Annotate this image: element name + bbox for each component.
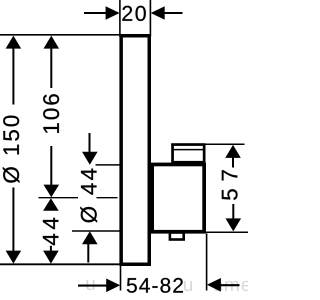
dimension 20: left arrow — [106, 6, 120, 20]
dimension 54-82: right arrow — [207, 278, 221, 292]
dimension D44: lower stem — [87, 244, 89, 263]
dimension 20: label — [122, 6, 145, 21]
dimension 57: label — [222, 170, 238, 200]
dimension D150: label — [3, 116, 20, 183]
dimension 54-82: left tail — [78, 285, 107, 287]
dimension D150: top arrow — [6, 36, 22, 49]
dimension 57: lower stem — [232, 204, 234, 220]
watermark letter — [87, 280, 95, 290]
dimension D44: bottom edge line — [72, 230, 121, 232]
dimension 57: top arrow — [225, 145, 241, 158]
plate top extension line — [0, 34, 121, 36]
dimension 54-82: left extension line — [120, 265, 122, 291]
dimension 57: top extension line — [204, 143, 245, 145]
dimension 54-82: right extension line — [206, 233, 208, 290]
dimension 44: top arrow (bowtie) — [43, 198, 59, 211]
dimension 106: top arrow — [44, 36, 60, 49]
dimension D44: lower arrow (up) — [82, 231, 98, 244]
dimension 44: bottom arrow — [43, 251, 59, 264]
dimension 20: left extension line — [119, 0, 121, 37]
dimension D44: label — [80, 169, 97, 223]
dimension 54-82: left arrow — [106, 279, 120, 293]
dimension 44: lower stem — [50, 246, 52, 252]
dimension 20: left tail — [84, 12, 107, 14]
dimension 57: bottom extension line — [206, 231, 248, 233]
dimension 20: right tail — [164, 12, 183, 14]
dimension 54-82: right tail — [220, 284, 240, 286]
dimension D150: bottom arrow — [6, 251, 22, 264]
handle centre extension line (left) — [39, 197, 79, 199]
dimension D150: upper stem — [12, 47, 14, 105]
escutcheon plate outline — [121, 36, 149, 265]
dimension 106: label — [43, 94, 59, 133]
handle centre extension line (right) — [97, 197, 118, 199]
dimension 106: upper stem — [50, 47, 52, 88]
valve body outline — [152, 164, 204, 231]
dimension 57: upper stem — [232, 157, 234, 168]
cartridge stop box — [173, 145, 205, 163]
dimension 20: right extension line — [149, 0, 151, 37]
dimension 106: bottom arrow (bowtie) — [44, 185, 60, 198]
dimension D44: top edge line — [96, 164, 121, 166]
dimension 106: lower stem — [50, 146, 52, 187]
dimension D150: lower stem — [12, 188, 14, 253]
dimension 54-82: label — [127, 278, 183, 293]
bottom tab — [170, 233, 184, 240]
watermark letter — [184, 281, 192, 291]
plate bottom extension line — [0, 263, 122, 265]
dimension D44: upper arrow (down) — [82, 152, 98, 165]
dimension 57: bottom arrow — [226, 218, 242, 231]
dimension 20: right arrow — [151, 6, 165, 20]
watermark letters — [214, 281, 251, 291]
dimension D44: upper stem — [89, 133, 91, 153]
dimension 44: label — [43, 218, 58, 245]
cartridge box inner line — [173, 149, 204, 151]
